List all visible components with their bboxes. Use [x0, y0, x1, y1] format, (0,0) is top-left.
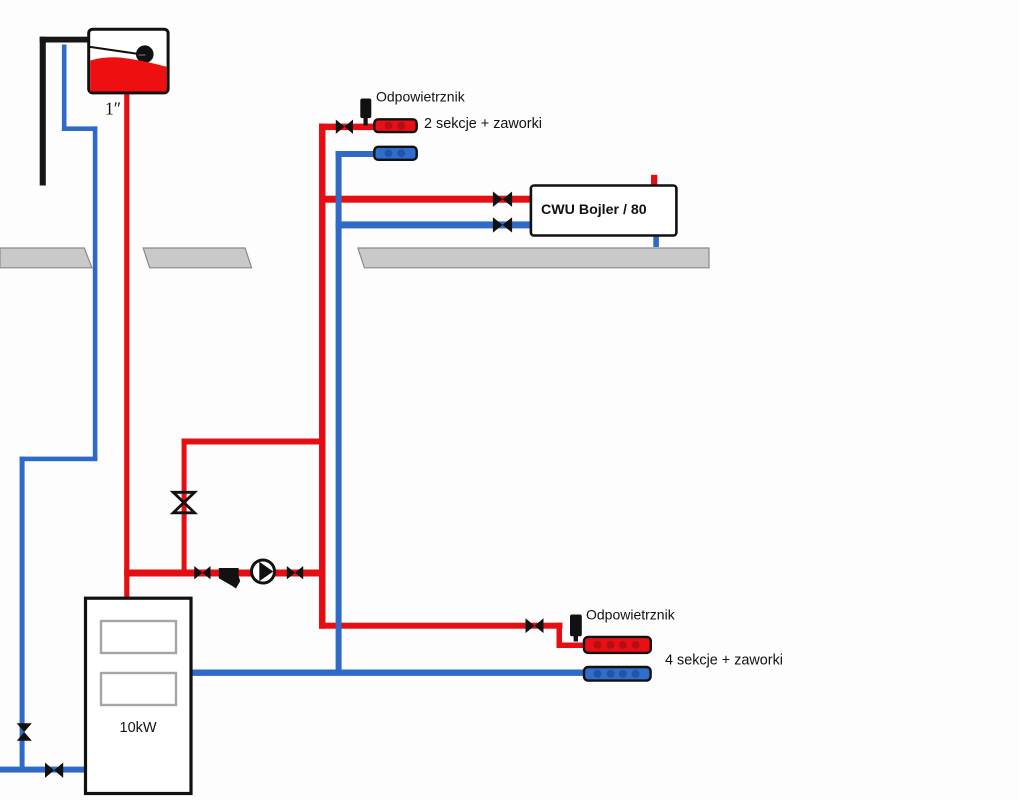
pipe: blue tank outlet vertical x64: [62, 45, 67, 132]
overflow pipe (black) horizontal: [40, 37, 90, 43]
boiler 10kW box: [86, 598, 192, 793]
pipe: red bypass vertical x184: [182, 439, 187, 575]
svg-text:Odpowietrznik: Odpowietrznik: [586, 607, 676, 623]
pipe: blue CWU stub bottom x656: [653, 235, 659, 247]
pipe: red jog down at x561: [557, 623, 563, 647]
valve V2 on red CWU branch: [493, 192, 512, 207]
air vent AV1: [360, 99, 371, 126]
expansion tank box: [89, 29, 168, 93]
valve V6 pump line right: [287, 566, 303, 579]
floor slab right: [358, 248, 709, 268]
overflow pipe (black) vertical: [40, 37, 46, 186]
svg-text:4 sekcje + zaworki: 4 sekcje + zaworki: [665, 653, 783, 669]
valve V5 pump line left: [194, 566, 210, 579]
pipe: blue top branch y154: [336, 151, 377, 157]
pipe: red riser from tank x126.7: [124, 90, 129, 600]
radiator R1 2 sekcje (red): [374, 119, 416, 132]
radiator R3 4 sekcje (red): [584, 637, 651, 653]
pipe: blue bottom main y672.7: [188, 670, 587, 676]
pipe: blue horizontal y459: [20, 457, 98, 462]
svg-text:Odpowietrznik: Odpowietrznik: [376, 89, 466, 105]
floor slab middle: [143, 248, 251, 268]
valve V3 on blue CWU branch: [493, 217, 512, 232]
pipe: red jog horizontal y645: [557, 643, 587, 649]
valve V9 on blue boiler feed: [45, 763, 63, 778]
floor slab left: [0, 248, 92, 268]
CWU boiler box: [531, 186, 677, 236]
pipe: red bypass horizontal y441.5: [182, 439, 326, 445]
valve V7 bypass (hourglass outline): [173, 492, 194, 513]
float ball: [136, 45, 154, 63]
valve V4 on red bottom branch: [526, 618, 544, 633]
pipe: red pump line y573: [124, 570, 325, 577]
valve V8 left blue line (hourglass filled): [17, 723, 32, 732]
pipe: blue main riser x338.4: [336, 151, 342, 673]
tank water (red fluid): [90, 57, 166, 91]
svg-text:CWU Bojler / 80: CWU Bojler / 80: [541, 202, 647, 218]
radiator R4 4 sekcje (blue): [584, 667, 651, 681]
pipe: blue boiler feed horizontal y770: [0, 767, 87, 773]
float lever arm: [89, 47, 142, 55]
pipe: blue CWU branch y225: [336, 221, 532, 228]
pipe: red bottom branch y625.7: [319, 623, 563, 629]
svg-text:2 sekcje + zaworki: 2 sekcje + zaworki: [424, 116, 542, 132]
pipe: red main riser x322.3: [319, 124, 326, 629]
pipe: red CWU branch y199: [319, 196, 532, 203]
pump P1: [252, 560, 275, 583]
radiator R2 2 sekcje (blue): [374, 147, 416, 160]
pipe: blue vertical x95: [93, 126, 98, 461]
pipe: blue left vertical x22: [20, 457, 25, 773]
svg-text:1″: 1″: [105, 98, 121, 118]
pipe: red CWU stub top x654: [651, 175, 657, 187]
check valve: [219, 568, 240, 589]
pipe: blue jog horizontal y128.5: [62, 126, 97, 131]
svg-text:10kW: 10kW: [120, 720, 157, 736]
pipe: red top branch y127: [319, 124, 377, 131]
air vent AV2: [570, 615, 582, 642]
valve V1 on top red branch: [336, 120, 353, 134]
